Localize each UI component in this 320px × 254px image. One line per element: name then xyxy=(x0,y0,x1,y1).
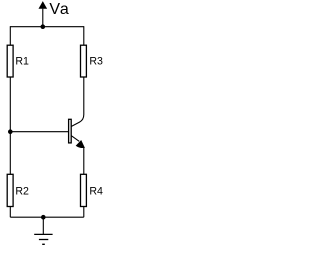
wire base xyxy=(10,131,68,133)
wire top rail xyxy=(10,26,84,28)
transistor Q1 base bar xyxy=(69,119,72,143)
resistor R2 xyxy=(7,174,13,206)
wire right rail upper xyxy=(83,26,85,45)
resistor R1 xyxy=(7,45,13,77)
wire emitter xyxy=(83,147,85,174)
wire left rail lower xyxy=(9,206,11,217)
svg-text:R2: R2 xyxy=(15,185,29,197)
node junction ground/bottom rail xyxy=(41,215,46,220)
node junction base wire/left rail xyxy=(8,129,13,134)
power supply arrow Va xyxy=(39,1,48,27)
wire collector xyxy=(71,77,84,127)
wire bottom rail xyxy=(10,216,84,218)
resistor R4 xyxy=(81,174,87,206)
ground xyxy=(34,217,52,244)
wire left rail upper xyxy=(9,26,11,45)
resistor R3 xyxy=(81,45,87,77)
wire left rail middle xyxy=(9,77,11,174)
svg-text:R1: R1 xyxy=(15,55,29,67)
node junction Va/top rail xyxy=(41,24,46,29)
svg-text:Va: Va xyxy=(49,1,69,18)
transistor Q1 emitter with arrow xyxy=(71,136,85,148)
svg-text:R3: R3 xyxy=(89,55,103,67)
wire right rail lower xyxy=(83,206,85,217)
svg-text:R4: R4 xyxy=(89,185,103,197)
